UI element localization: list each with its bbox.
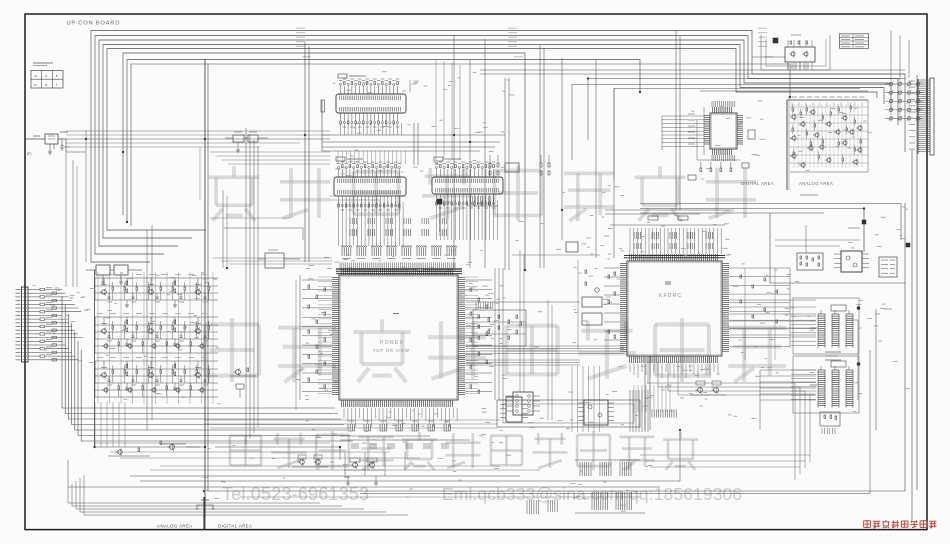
connector block CN3 [334, 157, 406, 210]
ladder loops [793, 298, 892, 430]
wire right RV2 [911, 150, 913, 520]
labels top blocks [333, 72, 515, 176]
wires U2 to combs [634, 385, 670, 412]
label U2 eq [665, 282, 671, 284]
capacitor C1 [61, 139, 71, 151]
svg-text:e: e [56, 74, 58, 78]
resistor ladder RN9 [818, 366, 853, 408]
svg-text:DIGITAL AREA: DIGITAL AREA [218, 524, 252, 529]
title text UP CON BOARD [67, 21, 121, 27]
wire pair V645 [645, 356, 650, 430]
wires to RN9 [791, 370, 816, 399]
wire mid V520 [519, 250, 521, 392]
watermark eml [442, 484, 742, 504]
svg-text:KFDRC: KFDRC [659, 293, 682, 299]
wires H455 right [640, 455, 810, 467]
wires mid right [640, 195, 910, 283]
bus rail above U1 [336, 263, 462, 274]
diode array D1-D16 [884, 31, 923, 123]
wire vertical VC8 [613, 88, 615, 258]
wires amp rows link [95, 402, 125, 447]
label DIGITAL AREA bottom [218, 524, 252, 529]
components below U2 [630, 364, 718, 378]
wire nested TL2 [146, 230, 148, 430]
watermark row2 [205, 318, 786, 382]
IC U5 [500, 397, 528, 422]
wires H420 [204, 420, 500, 428]
labels bottom [203, 370, 760, 511]
wire mid H255 [512, 254, 600, 256]
label ANALOG AREA [799, 181, 833, 186]
label U1 dash [393, 313, 399, 315]
amplifier Q12 pair [344, 458, 384, 485]
resistor group RN5 [468, 155, 550, 206]
wire right RV1 [916, 75, 918, 490]
wire nested TL1 [151, 225, 153, 420]
IC U4 [506, 392, 540, 415]
components left of U2 [566, 242, 620, 350]
transistor Q13 pair [292, 455, 328, 467]
legend table [31, 63, 63, 88]
svg-text:(F): (F) [27, 152, 31, 156]
resistor combs above U1 row2 [350, 218, 447, 236]
net divider symbol [195, 497, 215, 517]
connector block CN2 [336, 74, 406, 127]
labels analog [691, 101, 871, 179]
connector CN7 [879, 257, 897, 277]
wire RN8 right [847, 320, 858, 400]
wire vertical VC0b [484, 39, 486, 268]
labels mid [462, 186, 624, 347]
wire top H88 [614, 89, 860, 181]
wire bundle below U2b [630, 390, 676, 432]
wire bundle left [62, 296, 353, 441]
wires to RN8 [791, 316, 816, 345]
crystal X2 cluster [86, 262, 142, 284]
svg-text:TOP OR VIEW: TOP OR VIEW [373, 348, 410, 353]
wire vertical V208 [207, 64, 209, 492]
label RN9 [825, 352, 841, 360]
wire vertical V309 [308, 46, 310, 262]
svg-text:UP CON BOARD: UP CON BOARD [67, 21, 121, 27]
components below U1 [340, 408, 470, 478]
amplifier Q10 [108, 441, 200, 456]
wire mid V552 [551, 305, 553, 420]
wire mid H300 [466, 301, 580, 303]
connector combs bottom [527, 460, 645, 514]
box K2 [258, 250, 300, 268]
amplifier Q11 [230, 368, 256, 398]
wire bottom left steps [68, 475, 408, 515]
label ANALOG AREA bottom [157, 524, 193, 529]
amplifier row A1 [95, 275, 218, 308]
wires bus to CN4 [436, 59, 460, 160]
svg-text:b: b [35, 83, 37, 87]
square K3 [437, 199, 452, 232]
red stamp [864, 520, 937, 528]
resistor ladder RN8 [818, 310, 853, 348]
labels right [761, 207, 910, 411]
watermark row1 [209, 165, 756, 221]
wire vertical VC4 [539, 45, 541, 268]
watermark row3 [230, 431, 698, 470]
wire bottom bundle [68, 350, 870, 529]
revision table [840, 34, 869, 49]
wire bus row7 [127, 60, 640, 223]
watermark tel [222, 484, 369, 504]
wires U3 [662, 101, 740, 161]
wire top H84 [572, 85, 890, 161]
wire vertical VC3 [508, 78, 510, 270]
amplifier grid verticals [98, 272, 213, 404]
label DIGITAL AREA [741, 181, 774, 186]
transistor Q20 pair [690, 381, 726, 395]
svg-text:DIGITAL AREA: DIGITAL AREA [741, 181, 774, 186]
wire bus row6 [123, 53, 525, 270]
wire vertical VC2 [504, 78, 506, 270]
resistor combs above U1 [341, 246, 456, 259]
wire bus row8 [131, 64, 790, 226]
wire right RV3 [207, 203, 905, 491]
analog area circuits [700, 91, 868, 190]
wires to ladders [729, 300, 816, 430]
components left of U1 [296, 275, 332, 410]
wire mid right drop [805, 225, 807, 253]
wire mid V548 [547, 300, 549, 420]
wire bends TL [210, 196, 400, 240]
labels around U2 [573, 216, 800, 399]
wire vertical V246 group [246, 128, 258, 445]
wire mid H360 [466, 360, 580, 365]
resistor cluster RN7 [797, 253, 823, 270]
amplifier row A2 [95, 314, 218, 354]
IC U2 KFDRC [620, 254, 729, 363]
IC U1 POREX [332, 268, 465, 407]
wires CN2 to CN3 [321, 80, 505, 165]
wire vertical V205 [204, 59, 206, 529]
connector CN1 [16, 287, 35, 362]
wire bus nest top [91, 31, 905, 263]
label F [27, 152, 31, 156]
bus rail above U2 [624, 256, 725, 258]
connector block CN4 [432, 157, 503, 208]
components right of U1 [465, 268, 503, 408]
separator line areas [788, 96, 790, 190]
wires right of U2 [729, 268, 790, 348]
wire X1 bus [66, 130, 330, 262]
bundle below U2 left [572, 366, 600, 432]
wire vertical VC7 [595, 60, 597, 258]
svg-text:a: a [35, 74, 37, 78]
wires CN3 CN4 down [339, 200, 498, 246]
components above U2 [605, 210, 730, 254]
wires X1 down [66, 152, 77, 287]
svg-text:d: d [45, 83, 47, 87]
wire top H70 [480, 69, 905, 71]
wire vertical VC0 [453, 35, 455, 269]
wire top H80 [588, 79, 905, 141]
wire nest U2 right [648, 362, 810, 480]
capacitor group U3 [688, 130, 755, 180]
edge connector CN5 [909, 78, 934, 155]
wires midleft band [210, 152, 332, 264]
wires right of U2 vertical [745, 268, 775, 360]
wire vertical VC6c [679, 36, 681, 211]
wire vertical V94 [94, 270, 96, 447]
cluster K1 [225, 132, 268, 152]
labels amp rows [33, 273, 221, 404]
IC U3 QFP [704, 107, 743, 155]
amplifier row A3 [95, 358, 218, 398]
wire mid V524 [523, 254, 525, 392]
wire top H74 [480, 73, 890, 75]
svg-text:POREX: POREX [380, 340, 405, 346]
svg-text:f: f [56, 83, 57, 87]
small cluster RN10 [820, 412, 840, 434]
wire fanout CN1 [34, 288, 81, 361]
wire mid H347 [466, 346, 624, 354]
wires HL extra [66, 135, 330, 200]
regulator X1 [25, 132, 68, 154]
label U1 POREX [380, 340, 405, 346]
wire vertical VC6 [561, 58, 563, 240]
labels around U1 [297, 250, 507, 444]
wire pair V223 [223, 190, 227, 268]
bus net labels [296, 28, 773, 57]
component cluster center [473, 302, 526, 346]
svg-text:ANALOG AREA: ANALOG AREA [799, 181, 833, 186]
label U1 TOP OR VIEW [373, 348, 410, 353]
wire rect bottom right [497, 400, 640, 427]
wire vertical VC5 [543, 48, 545, 268]
IC U6 [578, 400, 614, 425]
label U2 KFDRC [659, 293, 682, 299]
svg-text:c: c [45, 74, 47, 78]
wire vertical VC1 [469, 60, 471, 268]
IC U7 [834, 251, 869, 272]
wire vertical V305 [304, 42, 306, 262]
oscillator cluster OSC1 [752, 35, 830, 70]
wire vertical VC6b [675, 31, 677, 211]
svg-text:ANALOG AREA: ANALOG AREA [157, 524, 193, 529]
